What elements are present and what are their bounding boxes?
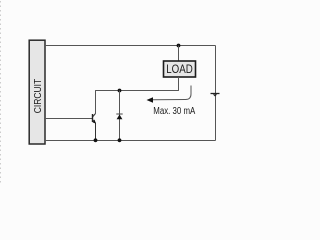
wire bottom rail [45, 140, 216, 142]
wire top rail to load [178, 46, 180, 62]
wire base [45, 118, 93, 120]
page edge dotted border [0, 1, 2, 185]
svg-text:Max. 30 mA: Max. 30 mA [153, 106, 195, 117]
wire right rail [215, 46, 217, 141]
svg-text:LOAD: LOAD [166, 64, 193, 76]
node diode bottom junction [118, 138, 122, 142]
wire load to collector [96, 77, 179, 114]
wire top rail [45, 45, 216, 47]
diode D1 [116, 114, 122, 119]
node emitter junction [94, 138, 98, 142]
load box LOAD [164, 61, 196, 77]
svg-text:CIRCUIT: CIRCUIT [32, 78, 44, 113]
node load tap on top rail [177, 44, 181, 48]
transistor Q1 (NPN open collector) [93, 114, 96, 141]
wire diode branch [119, 91, 121, 141]
power supply tap symbol on right rail [211, 94, 220, 97]
node diode top junction [118, 89, 122, 93]
circuit block (CIRCUIT) [29, 40, 45, 144]
current direction arrow (Max. 30 mA) [147, 86, 192, 103]
